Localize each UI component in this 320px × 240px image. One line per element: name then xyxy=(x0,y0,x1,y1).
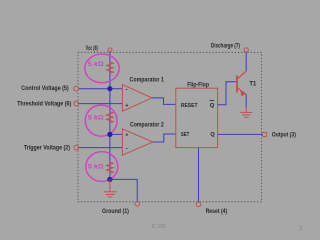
svg-text:5 kΩ: 5 kΩ xyxy=(88,61,104,68)
svg-text:Output (3): Output (3) xyxy=(272,132,296,138)
transistor T1 emitter arrow xyxy=(240,90,245,97)
svg-text:Flip-Flop: Flip-Flop xyxy=(187,83,209,89)
svg-text:-: - xyxy=(126,87,128,93)
comparator 1 (op-amp triangle) xyxy=(122,85,152,112)
ground symbol below T1 xyxy=(240,107,252,117)
svg-text:Trigger Voltage (2): Trigger Voltage (2) xyxy=(24,146,70,152)
svg-text:Q: Q xyxy=(210,132,215,138)
pin Vcc (8) terminal xyxy=(108,48,112,52)
ground symbol below R3 xyxy=(104,179,117,197)
svg-text:1: 1 xyxy=(299,225,303,232)
pin Reset (4) terminal xyxy=(196,202,201,207)
wire: flip-flop to reset pin (4) xyxy=(198,148,200,202)
svg-text:5 kΩ: 5 kΩ xyxy=(88,164,104,171)
highlight circle around R1 xyxy=(85,54,119,83)
divider bottom junction dot xyxy=(107,177,112,182)
svg-text:Q: Q xyxy=(210,103,215,109)
pin label Q-bar xyxy=(210,100,215,109)
resistor R3 zigzag xyxy=(107,161,114,174)
svg-text:IC 555: IC 555 xyxy=(152,224,166,230)
pin Ground (1) terminal xyxy=(135,202,140,207)
wire: flip-flop Q-bar to transistor base xyxy=(218,82,237,105)
svg-text:Threshold Voltage (6): Threshold Voltage (6) xyxy=(17,102,71,108)
highlight circle around R2 xyxy=(85,105,117,136)
wire: divider bottom to ground pin (1) xyxy=(110,179,137,201)
wire: flip-flop Q to output pin (3) xyxy=(218,133,262,135)
flip-flop U1 box xyxy=(176,88,218,147)
svg-text:-: - xyxy=(126,146,128,152)
wire: discharge pin (7) down to transistor collector xyxy=(245,52,247,71)
resistor R1 zigzag xyxy=(107,61,114,74)
svg-text:Comparator 2: Comparator 2 xyxy=(130,121,164,128)
svg-text:Discharge (7): Discharge (7) xyxy=(211,44,240,50)
svg-text:RESET: RESET xyxy=(181,103,198,109)
wire: transistor emitter to ground xyxy=(245,95,247,108)
wire: control voltage (5) to comparator 1 inverting input xyxy=(79,88,123,90)
pin Output (3) terminal xyxy=(263,132,267,136)
comparator 2 (op-amp triangle) xyxy=(122,129,152,155)
resistor R2 zigzag xyxy=(107,111,114,124)
wire: voltage divider vertical xyxy=(109,52,111,180)
node A junction dot xyxy=(107,86,112,91)
pin Trigger Voltage (2) terminal xyxy=(74,145,79,150)
pin Control Voltage (5) terminal xyxy=(74,86,79,91)
wire: divider node B to comparator 2 non-inverting input xyxy=(110,133,123,135)
transistor T1 xyxy=(237,71,246,95)
svg-text:Comparator 1: Comparator 1 xyxy=(130,76,165,83)
svg-text:Vcc (8): Vcc (8) xyxy=(86,46,98,52)
wire: comparator 2 output to flip-flop SET xyxy=(153,134,176,142)
svg-text:Control Voltage (5): Control Voltage (5) xyxy=(21,86,68,92)
svg-text:Ground (1): Ground (1) xyxy=(102,209,129,215)
node B junction dot xyxy=(107,132,112,137)
svg-text:+: + xyxy=(125,103,128,109)
svg-text:+: + xyxy=(125,133,128,139)
wire: trigger voltage (2) to comparator 2 inverting input xyxy=(79,147,123,149)
svg-text:Reset (4): Reset (4) xyxy=(206,209,228,215)
pin Discharge (7) terminal xyxy=(244,48,248,52)
wire: threshold voltage (6) to comparator 1 non-inverting input xyxy=(79,103,123,105)
wire: comparator 1 output to flip-flop RESET xyxy=(152,98,176,105)
svg-text:T1: T1 xyxy=(249,82,257,88)
IC boundary dashed box xyxy=(78,52,261,202)
svg-text:SET: SET xyxy=(181,132,190,138)
highlight circle around R3 xyxy=(86,152,118,182)
pin Threshold Voltage (6) terminal xyxy=(74,101,79,106)
svg-text:5 kΩ: 5 kΩ xyxy=(88,115,104,122)
